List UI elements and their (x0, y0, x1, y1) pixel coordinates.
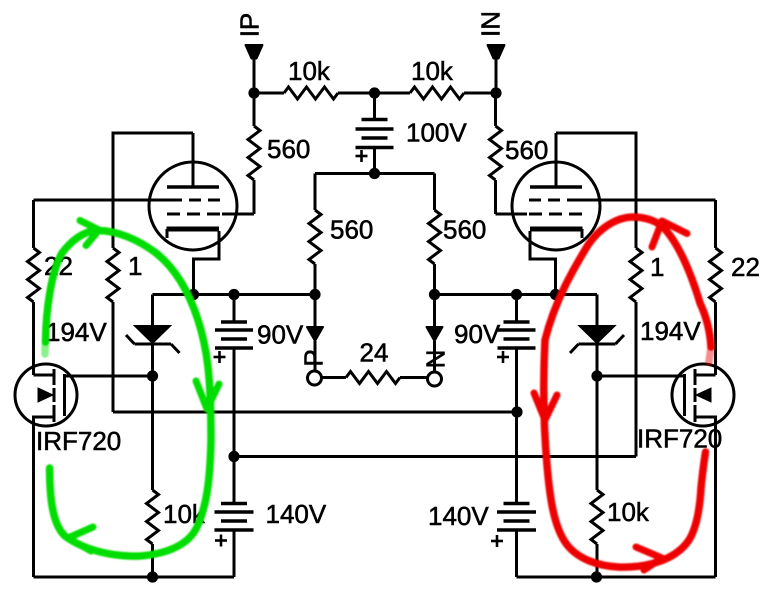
label 560 under IN (505, 135, 548, 165)
node P label (299, 349, 329, 366)
resistor 24 load (322, 372, 428, 384)
label IRF720 right (637, 424, 722, 454)
wire V1 plate box (113, 133, 193, 248)
svg-text:10k: 10k (411, 56, 454, 86)
zener D2 right (570, 295, 624, 377)
svg-text:IRF720: IRF720 (36, 426, 121, 456)
svg-text:10k: 10k (607, 497, 650, 527)
terminal IP (input P, arrow marker) (246, 45, 263, 59)
wire center rail below 100V (315, 172, 435, 175)
svg-text:194V: 194V (46, 317, 107, 347)
wire bus right (435, 293, 598, 296)
label 22 right (731, 252, 760, 282)
svg-text:10k: 10k (288, 56, 331, 86)
svg-text:560: 560 (443, 215, 486, 245)
svg-text:90V: 90V (257, 320, 304, 350)
label 22 left (44, 251, 73, 281)
battery B4 140V left (215, 457, 254, 578)
resistor 560 mid-right (429, 174, 441, 295)
battery B2 90V left (215, 295, 253, 457)
terminal P output (307, 295, 323, 386)
resistor 1 right (630, 248, 642, 457)
svg-text:IP: IP (235, 13, 265, 38)
label 1 left (128, 251, 142, 281)
label + of 140V right (491, 535, 503, 547)
label 1 right (650, 252, 664, 282)
node IP label (235, 13, 265, 38)
tube V2 cathode (530, 229, 583, 295)
tube V1 cathode (167, 229, 220, 295)
svg-text:IRF720: IRF720 (637, 424, 722, 454)
svg-text:24: 24 (360, 338, 389, 368)
green current loop arrow (45, 221, 219, 557)
label 90V right (454, 319, 501, 349)
label 10k top-left (288, 56, 331, 86)
resistor 10k top-right (375, 87, 497, 99)
wire B cross-couple right-to-left (234, 455, 636, 458)
tube V2 grid row 1 (529, 199, 579, 202)
label 100V (406, 118, 467, 148)
wire grid left (34, 199, 171, 202)
label 90V left (257, 320, 304, 350)
wire bus left (153, 293, 316, 296)
label 140V right (428, 501, 489, 531)
wire gate left (65, 375, 153, 378)
label 194V right (640, 316, 701, 346)
label + of 100V (356, 150, 368, 162)
resistor 10k bottom-right (591, 376, 603, 577)
label 10k bottom-right (607, 497, 650, 527)
svg-text:140V: 140V (266, 499, 327, 529)
wire gate right (597, 375, 685, 378)
label IRF720 left (36, 426, 121, 456)
label 24 (360, 338, 389, 368)
tube V2 envelope (512, 162, 600, 250)
red current loop arrow (534, 217, 711, 570)
label + of 140V left (215, 535, 227, 547)
wire IP lead (253, 58, 256, 93)
wire V2 plate box (556, 133, 636, 248)
wire IN lead (495, 58, 498, 93)
tube V2 grid row 2 (529, 213, 582, 216)
svg-text:100V: 100V (406, 118, 467, 148)
svg-text:560: 560 (505, 135, 548, 165)
wire grid right (579, 199, 716, 202)
svg-text:22: 22 (731, 252, 760, 282)
resistor 560 under IP (222, 93, 260, 214)
terminal N output (427, 295, 443, 387)
resistor 10k bottom-left (147, 376, 159, 577)
svg-text:IN: IN (476, 11, 506, 37)
tube V1 envelope (149, 162, 237, 250)
svg-text:194V: 194V (640, 316, 701, 346)
label 140V left (266, 499, 327, 529)
svg-text:560: 560 (330, 215, 373, 245)
svg-text:1: 1 (128, 251, 142, 281)
resistor 22 left (28, 200, 40, 375)
node IN label (476, 11, 506, 37)
battery B5 140V right (497, 412, 536, 577)
wire A cross-couple left-to-right (113, 411, 517, 414)
wire bottom bus left (34, 576, 235, 579)
svg-text:90V: 90V (454, 319, 501, 349)
svg-text:140V: 140V (428, 501, 489, 531)
tube V2 plate (530, 133, 582, 187)
tube V1 plate (167, 133, 219, 187)
battery B1 100V (356, 93, 394, 174)
svg-text:1: 1 (650, 252, 664, 282)
battery B3 90V right (498, 295, 536, 413)
svg-text:P: P (299, 349, 329, 366)
resistor 10k top-left (254, 87, 375, 99)
label 560 mid-left (330, 215, 373, 245)
resistor 560 mid-left (309, 174, 321, 295)
zener D1 left (126, 295, 180, 377)
label 560 mid-right (443, 215, 486, 245)
wire bottom bus right (517, 576, 716, 579)
label 560 under IP (267, 134, 310, 164)
label 194V left (46, 317, 107, 347)
label 10k top-right (411, 56, 454, 86)
node N label (421, 350, 451, 369)
label + of 90V right (497, 351, 509, 363)
resistor 560 under IN (490, 93, 528, 214)
svg-text:N: N (421, 350, 451, 369)
resistor 1 left (107, 248, 119, 412)
svg-text:560: 560 (267, 134, 310, 164)
terminal IN (input N, arrow marker) (488, 45, 505, 59)
MOSFET Q1 IRF720 left (15, 364, 77, 577)
tube V1 grid row 2 (167, 213, 220, 216)
resistor 22 right (710, 200, 722, 375)
tube V1 grid row 1 (170, 199, 220, 202)
MOSFET Q2 IRF720 right (672, 364, 734, 577)
label 10k bottom-left (163, 499, 206, 529)
label + of 90V left (214, 351, 226, 363)
